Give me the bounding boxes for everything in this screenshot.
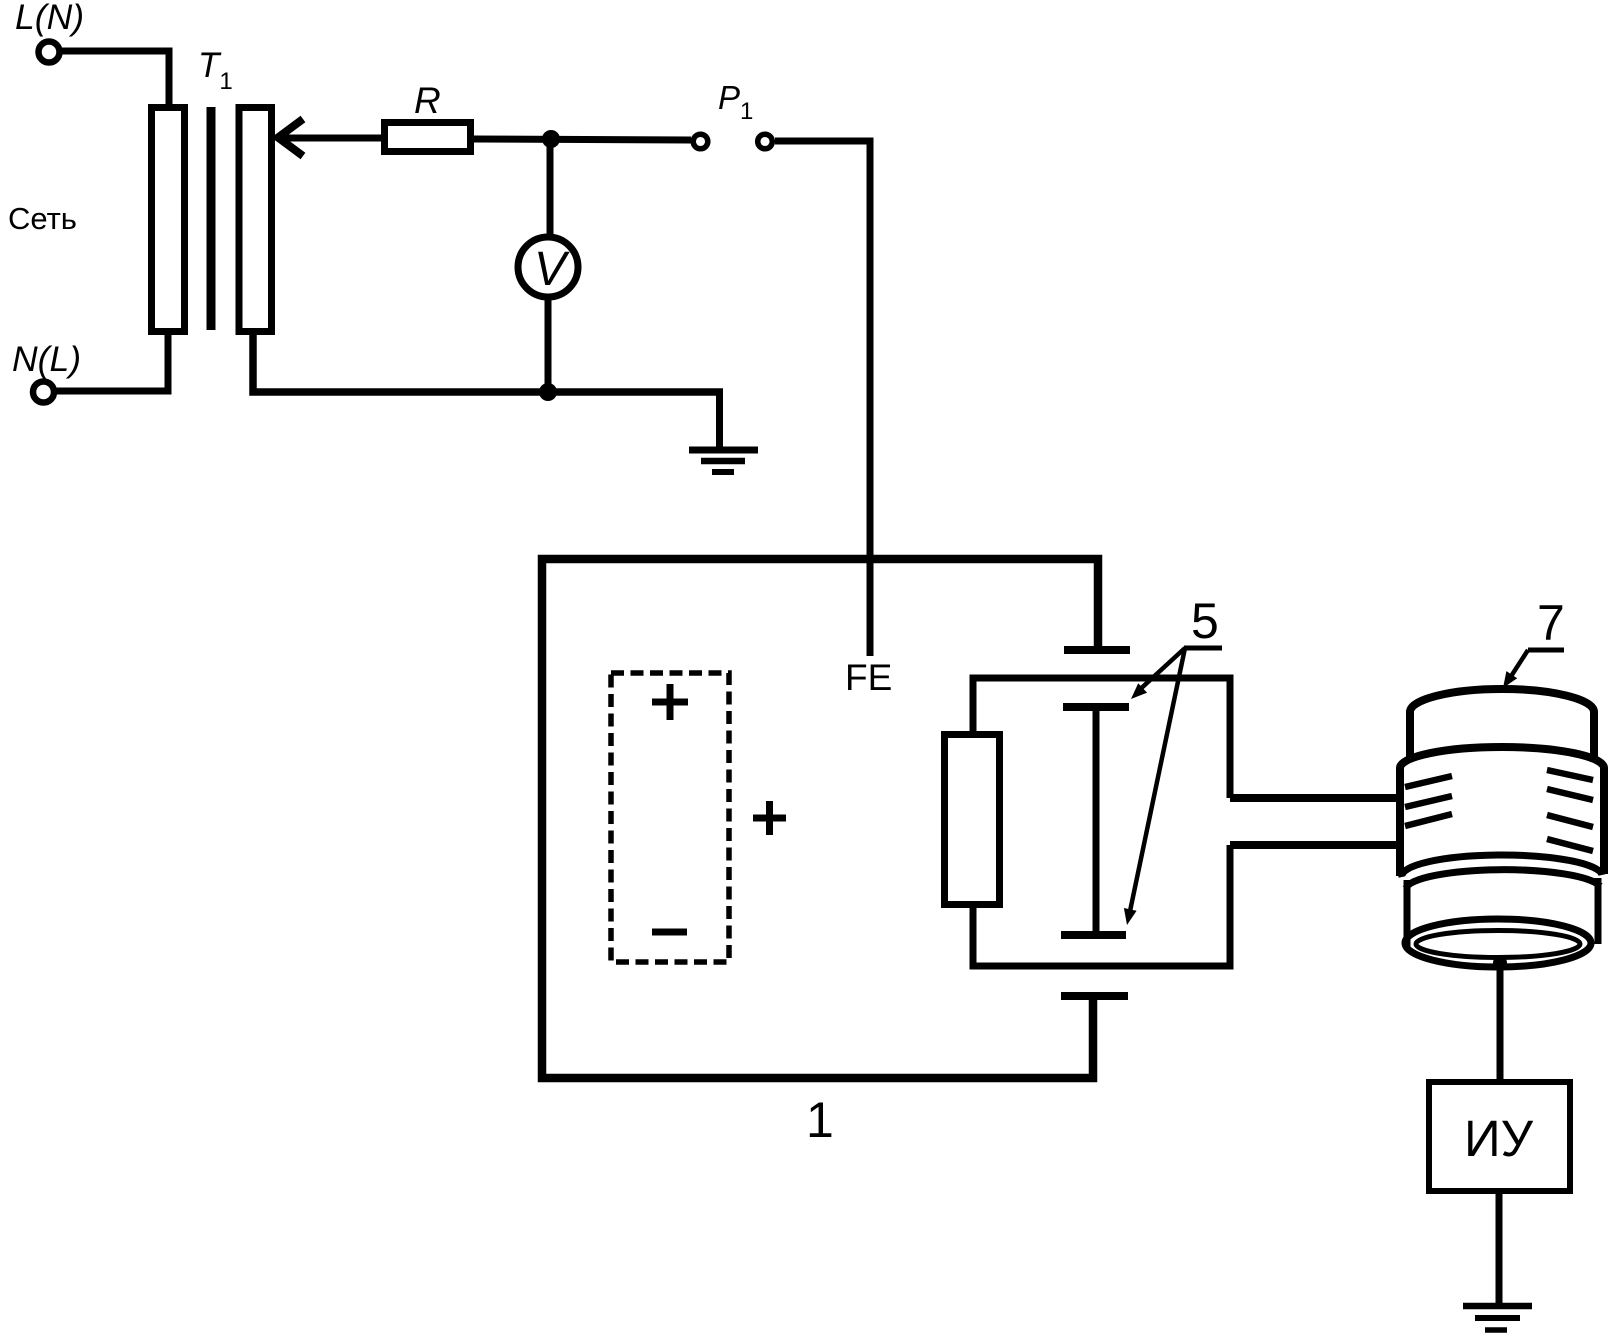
battery (dashed outline) — [611, 673, 729, 962]
switch P1 right contact — [758, 134, 773, 149]
tube to microphone lower — [1230, 841, 1400, 849]
microphone 7 top cap — [1410, 689, 1594, 712]
node at microphone output — [1493, 956, 1507, 970]
polarity plus mark — [753, 801, 786, 835]
microphone 7 body top rim — [1400, 747, 1604, 768]
microphone 7 lower section sides — [1404, 880, 1411, 948]
inner measuring cell outline — [973, 678, 1230, 966]
wire microphone to amplifier — [1497, 963, 1504, 1082]
svg-text:R: R — [414, 80, 441, 121]
microphone 7 knurl marks left — [1405, 776, 1452, 826]
wire N(L) to T1 primary bottom — [55, 335, 168, 391]
wire junction to voltmeter — [547, 139, 554, 236]
ground (amplifier side) — [1463, 1303, 1532, 1310]
variable tap arrow — [283, 135, 382, 142]
voltmeter V — [518, 237, 578, 297]
wire amplifier to ground — [1496, 1191, 1503, 1305]
transformer T1 primary winding — [152, 108, 185, 332]
microphone 7 knurl marks right — [1547, 770, 1593, 851]
node junction at R output — [542, 130, 560, 148]
electrode 5 top plate — [1063, 703, 1129, 711]
svg-text:Сеть: Сеть — [8, 201, 77, 236]
wire L(N) to T1 primary — [60, 51, 169, 104]
terminal N(L) — [33, 382, 54, 403]
svg-text:ИУ: ИУ — [1464, 1110, 1534, 1167]
microphone 7 lower band — [1402, 855, 1602, 877]
chamber box 1 outline — [542, 559, 1098, 1078]
microphone 7 bottom rim outer — [1405, 919, 1591, 967]
svg-text:FE: FE — [845, 657, 892, 698]
resistor R — [385, 123, 471, 152]
leader arrow to microphone — [1508, 650, 1528, 681]
amplifier box ИУ — [1429, 1082, 1570, 1191]
battery minus mark — [652, 929, 687, 936]
leader arrow to bottom electrode — [1129, 648, 1185, 916]
wire R to P1 — [474, 139, 691, 140]
resistor (vertical, in cell) — [945, 735, 1000, 905]
wire P1 to FE electrode — [775, 141, 870, 656]
svg-text:7: 7 — [1537, 595, 1565, 651]
wire voltmeter to ground bus — [545, 297, 552, 392]
leader arrow to top electrode — [1136, 648, 1185, 693]
svg-text:N(L): N(L) — [12, 339, 81, 379]
svg-text:V: V — [534, 243, 570, 296]
svg-text:L(N): L(N) — [15, 0, 84, 37]
node junction at ground bus — [539, 383, 557, 401]
tube to microphone upper — [1230, 794, 1400, 802]
transformer T1 core — [207, 107, 216, 330]
ground (mains side) — [689, 447, 758, 454]
terminal L(N) — [39, 42, 60, 63]
coupling plate bottom — [1061, 992, 1128, 1000]
electrode stem — [1093, 707, 1100, 935]
wire T1 secondary bottom to ground bus — [253, 335, 723, 392]
microphone 7 bottom rim inner — [1416, 931, 1580, 958]
coupling plate top — [1064, 646, 1130, 654]
wire ground bus to ground — [716, 392, 723, 449]
svg-text:5: 5 — [1191, 593, 1219, 649]
transformer T1 secondary winding — [239, 108, 272, 332]
svg-text:1: 1 — [806, 1092, 834, 1148]
microphone 7 body sides — [1396, 768, 1404, 876]
battery plus mark — [652, 684, 688, 720]
electrode 5 bottom plate — [1061, 931, 1126, 939]
switch P1 left contact — [693, 134, 708, 149]
